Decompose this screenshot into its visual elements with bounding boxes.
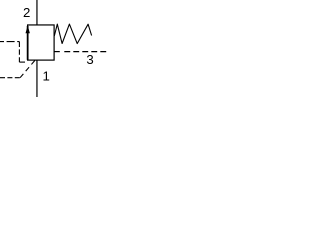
svg-text:1: 1 bbox=[43, 68, 50, 83]
svg-text:3: 3 bbox=[86, 52, 93, 67]
svg-text:2: 2 bbox=[23, 5, 30, 20]
